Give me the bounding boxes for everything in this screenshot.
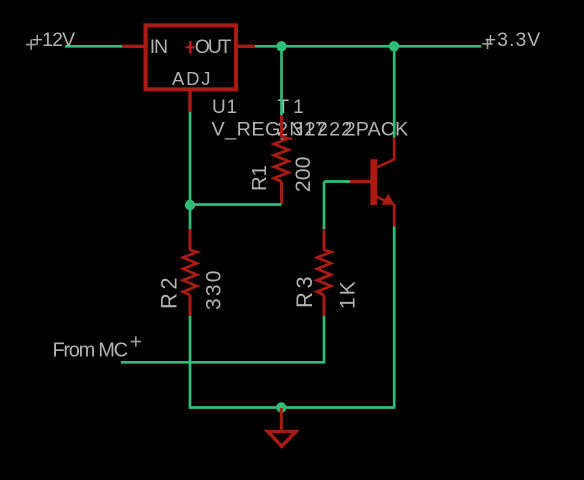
pin IN stub [122, 45, 144, 48]
voltage regulator U1 box [146, 25, 236, 89]
pin ADJ stub [188, 92, 191, 113]
wire emitter to ground rail [393, 227, 396, 409]
svg-text:+3.3V: +3.3V [485, 29, 542, 51]
transistor T1 [350, 138, 395, 227]
svg-text:R1: R1 [248, 165, 271, 191]
emitter diagonal [377, 196, 387, 201]
base pin stub [350, 180, 371, 183]
wire R3 bottom [323, 316, 326, 362]
emitter pin stub [393, 204, 396, 227]
pin marker + (OUT) [186, 41, 195, 54]
collector pin stub [393, 138, 396, 161]
power label +12V [26, 29, 75, 51]
svg-text:330: 330 [203, 268, 226, 310]
svg-text:ADJ: ADJ [172, 68, 212, 89]
ground symbol GND [268, 408, 296, 446]
wire ground rail [190, 406, 394, 409]
resistor R2 [183, 229, 197, 316]
svg-text:OUT: OUT [195, 36, 232, 58]
base bar [370, 159, 377, 205]
wire OUT net (+3.3V rail) [255, 45, 481, 48]
junction dot ADJ node [185, 200, 195, 210]
wire R2 bottom to ground rail [189, 316, 192, 409]
wire OUT to R1 [280, 46, 283, 116]
wire base net vertical [323, 182, 326, 230]
collector diagonal [377, 160, 395, 168]
wire +12V net [65, 45, 122, 48]
wire node to R1 bottom [190, 203, 282, 206]
pin OUT stub [236, 45, 255, 48]
wire ADJ to node [189, 112, 192, 205]
svg-text:2PACK: 2PACK [345, 119, 408, 141]
junction dot at OUT/collector [389, 41, 399, 51]
svg-text:U1: U1 [212, 97, 238, 118]
net label From MC [53, 336, 142, 361]
emitter arrow [382, 194, 395, 205]
junction dot ground rail [276, 402, 286, 412]
wire collector to +3.3V rail [393, 46, 396, 137]
svg-text:1K: 1K [337, 279, 360, 309]
resistor R3 [317, 229, 331, 316]
wire node to R2 [189, 205, 192, 230]
wire base net horizontal [324, 180, 350, 183]
resistor R1 [274, 115, 289, 204]
svg-text:200: 200 [291, 156, 315, 192]
junction dot at OUT/R1 [276, 41, 286, 51]
svg-text:From MC: From MC [53, 340, 128, 362]
wire From MC net [121, 361, 325, 364]
power label +3.3V [482, 29, 541, 51]
svg-text:+12V: +12V [32, 29, 76, 51]
svg-text:R3: R3 [292, 273, 317, 308]
svg-text:IN: IN [150, 36, 167, 58]
svg-text:R2: R2 [157, 274, 182, 309]
